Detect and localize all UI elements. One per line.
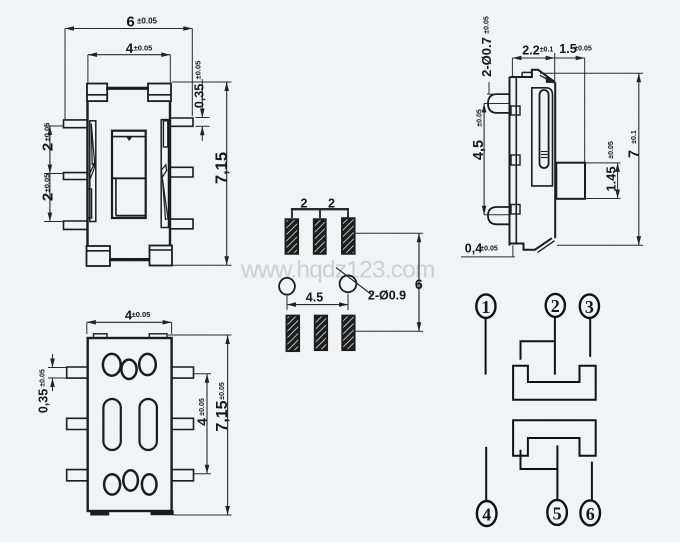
schematic wire from terminal 6 bbox=[591, 462, 593, 500]
view 4 oval slot left bbox=[103, 399, 120, 450]
view 4 right pin 3 bbox=[172, 470, 194, 481]
svg-text:±0.05: ±0.05 bbox=[134, 44, 153, 53]
schematic bent wire left of terminal 5 bbox=[521, 450, 558, 469]
view 1 right pin 2 bbox=[170, 167, 193, 177]
dimension 7 +/-0.1 overall height view 2 bbox=[540, 73, 643, 245]
view 1 right internal contact slot bbox=[161, 120, 168, 228]
svg-text:7,15: 7,15 bbox=[213, 152, 231, 184]
svg-text:6: 6 bbox=[415, 276, 423, 292]
view 1 slider knob bbox=[112, 131, 146, 218]
dimension 0.35 +/-0.05 pin thickness view 4 bbox=[37, 354, 67, 413]
view 4 top hole left bbox=[103, 354, 121, 376]
view 4 bottom hole right bbox=[142, 474, 157, 494]
view 1 bottom-right mounting tab bbox=[150, 246, 173, 266]
svg-text:2-Ø0.9: 2-Ø0.9 bbox=[368, 289, 406, 303]
schematic lower moving contact bbox=[513, 420, 596, 455]
dimension 2 pad pitch left (PCB) bbox=[291, 197, 349, 219]
svg-text:1.45: 1.45 bbox=[604, 166, 619, 191]
view 4 top hole right bbox=[139, 354, 156, 375]
PCB pad 5 (bottom-middle, hatched) bbox=[315, 316, 327, 351]
dimension 4.5 hole pitch (PCB) bbox=[287, 291, 348, 311]
view 2 top locating peg bbox=[488, 94, 510, 113]
svg-text:6: 6 bbox=[586, 504, 595, 524]
dimension 0.35 +/-0.05 pin thickness view 1 bbox=[193, 61, 210, 141]
view 2 inner plate with slot housing bbox=[532, 88, 553, 186]
view 1 right contact spring bbox=[161, 165, 168, 220]
view 4 bottom view body outline bbox=[88, 338, 172, 511]
dimension 2-dia0.7 peg label view 2 bbox=[479, 16, 509, 103]
dimension 4.5 +/-0.05 peg pitch view 2 bbox=[471, 104, 509, 215]
svg-text:±0.05: ±0.05 bbox=[480, 246, 498, 253]
view 1 left contact spring bbox=[89, 124, 94, 178]
view 1 bottom edge thick line bbox=[109, 258, 150, 261]
svg-text:4: 4 bbox=[126, 41, 134, 56]
view 2 actuator knob bbox=[556, 163, 585, 199]
view 1 left pin 3 bbox=[64, 221, 88, 229]
svg-text:2: 2 bbox=[40, 193, 57, 201]
svg-text:±0.05: ±0.05 bbox=[608, 141, 615, 159]
label 2-dia0.9 holes with leader (PCB) bbox=[336, 268, 406, 303]
schematic terminal circle 4 bbox=[477, 501, 497, 526]
view 1 top-left mounting tab bbox=[87, 84, 107, 102]
view 4 right pin 2 bbox=[172, 418, 194, 429]
view 1 right upper contact strip bbox=[163, 121, 167, 147]
view 2 top edge and peak with chamfer bbox=[510, 70, 555, 83]
view 2 slider slot bbox=[540, 90, 549, 168]
view 1 right pin 1 bbox=[170, 118, 193, 126]
dimension 2 +/-0.05 upper pin pitch view 1 bbox=[40, 123, 64, 174]
view 1 left internal contact slot bbox=[90, 121, 96, 222]
svg-text:3: 3 bbox=[585, 297, 594, 317]
view 4 left pin 2 bbox=[67, 418, 88, 429]
svg-text:±0.1: ±0.1 bbox=[540, 47, 554, 54]
dimension 4 +/-0.05 body width view 1 bbox=[88, 41, 170, 83]
schematic terminal circle 6 bbox=[580, 500, 600, 525]
svg-text:2-Ø0.7: 2-Ø0.7 bbox=[479, 37, 494, 77]
schematic wire from terminal 3 bbox=[589, 319, 591, 357]
view 4 bottom hole middle bbox=[123, 470, 138, 490]
svg-text:2: 2 bbox=[301, 197, 308, 211]
view 2 pin end square 1 bbox=[511, 106, 520, 115]
PCB mounting hole left bbox=[279, 278, 295, 295]
svg-text:4,5: 4,5 bbox=[471, 140, 487, 160]
dimension 6 +/-0.05 overall width view 1 bbox=[65, 14, 192, 120]
svg-text:±0.05: ±0.05 bbox=[40, 369, 47, 387]
svg-text:5: 5 bbox=[553, 504, 562, 524]
dimension 2 pad pitch right (PCB) bbox=[328, 197, 348, 219]
dimension 7,15 +/-0.05 overall height view 4 bbox=[168, 335, 232, 515]
view 4 right pin 1 bbox=[172, 367, 194, 378]
view 2 pin end square 2 bbox=[511, 155, 520, 165]
svg-text:±0.05: ±0.05 bbox=[477, 109, 484, 127]
svg-text:±0.05: ±0.05 bbox=[194, 61, 203, 80]
svg-text:7: 7 bbox=[626, 150, 642, 158]
view 2 side view left wall bbox=[510, 77, 517, 246]
svg-text:2: 2 bbox=[551, 296, 560, 316]
svg-text:±0.05: ±0.05 bbox=[199, 398, 206, 416]
view 4 top tab right bbox=[149, 334, 167, 338]
svg-text:±0.05: ±0.05 bbox=[219, 382, 226, 400]
PCB pad 2 (top-middle, hatched) bbox=[314, 219, 326, 254]
schematic terminal circle 2 bbox=[546, 294, 565, 317]
svg-text:±0.05: ±0.05 bbox=[574, 46, 592, 53]
svg-text:±0.05: ±0.05 bbox=[132, 310, 151, 319]
view 2 pin end square 3 bbox=[511, 205, 520, 215]
svg-text:1: 1 bbox=[481, 297, 490, 317]
PCB mounting hole right bbox=[340, 275, 357, 292]
schematic wire from terminal 1 bbox=[485, 319, 487, 375]
view 1 top edge thick line bbox=[106, 87, 149, 90]
svg-text:0,35: 0,35 bbox=[37, 389, 51, 413]
svg-text:7,15: 7,15 bbox=[214, 400, 231, 431]
svg-text:±0.05: ±0.05 bbox=[43, 123, 52, 142]
view 4 top hole middle bbox=[121, 360, 136, 379]
schematic upper moving contact bbox=[513, 366, 596, 400]
view 4 bottom hole left bbox=[104, 474, 120, 494]
svg-text:2: 2 bbox=[40, 143, 57, 151]
svg-text:±0.05: ±0.05 bbox=[137, 17, 158, 26]
dimension 1.5 +/-0.05 view 2 bbox=[559, 42, 592, 162]
view 1 left lower contact strip bbox=[87, 189, 91, 218]
view 4 top tab left bbox=[94, 334, 108, 338]
schematic bent wire left of terminal 2 bbox=[521, 341, 555, 360]
view 2 right wall bbox=[554, 82, 556, 238]
view 4 bottom tab left bbox=[91, 511, 109, 515]
dimension 1.45 +/-0.05 knob height view 2 bbox=[586, 141, 621, 198]
schematic terminal circle 3 bbox=[580, 294, 599, 318]
dimension 7,15 overall height view 1 bbox=[172, 82, 231, 265]
svg-text:2: 2 bbox=[328, 197, 335, 211]
view 1 bottom-left mounting tab bbox=[87, 246, 111, 266]
view 4 left pin 3 bbox=[67, 470, 88, 481]
dimension 4 +/-0.05 pin span view 4 bbox=[194, 374, 212, 474]
schematic wire from terminal 2 bbox=[554, 317, 556, 374]
view 4 bottom tab right bbox=[151, 511, 173, 515]
svg-text:www.hqdz123.com: www.hqdz123.com bbox=[240, 257, 435, 284]
view 1 right pin 3 bbox=[170, 219, 193, 229]
svg-text:4.5: 4.5 bbox=[306, 291, 323, 305]
svg-text:4: 4 bbox=[194, 418, 210, 426]
svg-text:±0.05: ±0.05 bbox=[484, 16, 491, 34]
dimension 0.4 +/-0.05 foot height view 2 bbox=[461, 242, 515, 257]
dimension 2 +/-0.05 lower pin pitch view 1 bbox=[40, 174, 64, 222]
dimension 2.2 +/-0.1 view 2 bbox=[512, 44, 584, 84]
view 4 left pin 1 bbox=[67, 367, 88, 378]
view 2 bottom edge with step and chamfer bbox=[510, 238, 555, 252]
view 1 left pin 2 bbox=[64, 173, 88, 180]
dimension 6 pad row spacing (PCB) bbox=[355, 233, 423, 331]
svg-text:4: 4 bbox=[482, 505, 491, 525]
schematic terminal circle 1 bbox=[476, 294, 495, 318]
PCB pad 6 (bottom-right, hatched) bbox=[342, 316, 354, 351]
view 2 bottom locating peg bbox=[488, 207, 510, 224]
view 1 top-right mounting tab bbox=[148, 84, 171, 102]
PCB pad 4 (bottom-left, hatched) bbox=[287, 316, 300, 352]
PCB pad 1 (top-left, hatched) bbox=[286, 219, 299, 254]
svg-text:2.2: 2.2 bbox=[522, 44, 539, 58]
schematic terminal circle 5 bbox=[547, 500, 567, 525]
svg-text:±0.05: ±0.05 bbox=[43, 174, 52, 193]
view 1 front view body outline bbox=[88, 88, 171, 260]
dimension 4 +/-0.05 body width view 4 bbox=[87, 308, 172, 335]
svg-text:0,35: 0,35 bbox=[193, 84, 207, 108]
view 1 left pin 1 bbox=[64, 120, 88, 128]
view 4 oval slot right bbox=[140, 399, 157, 450]
svg-text:±0.1: ±0.1 bbox=[631, 130, 638, 144]
svg-text:6: 6 bbox=[126, 14, 134, 31]
schematic wire from terminal 5 bbox=[556, 445, 558, 500]
PCB pad 3 (top-right, hatched) bbox=[342, 218, 355, 254]
schematic wire from terminal 4 bbox=[485, 447, 487, 501]
